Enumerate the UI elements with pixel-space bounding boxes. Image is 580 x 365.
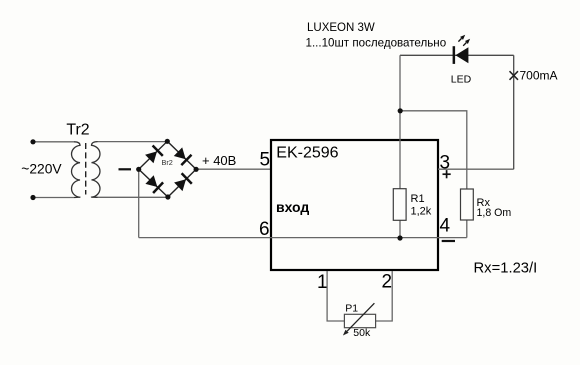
svg-text:4: 4 — [440, 216, 451, 237]
transformer secondary winding — [92, 142, 100, 198]
svg-text:Tr2: Tr2 — [66, 122, 89, 139]
transformer Tr2 primary winding — [72, 142, 80, 198]
wire LED return vertical — [513, 55, 515, 169]
svg-text:1,2k: 1,2k — [411, 206, 432, 218]
wire secondary top to bridge — [98, 141, 168, 143]
bridge rectifier Br2 outline — [139, 141, 196, 197]
svg-text:2: 2 — [382, 271, 393, 292]
diode D2 (top-right edge) — [174, 147, 186, 159]
minus sign at bridge left node — [119, 168, 132, 170]
svg-text:3: 3 — [440, 152, 451, 173]
wire bridge plus to pin5 — [196, 168, 271, 170]
wire pin3 to LED return — [438, 168, 514, 170]
node bridge top — [165, 139, 170, 144]
diode D3 (left-bottom edge) — [145, 175, 157, 187]
wire pin2 to pot — [376, 271, 393, 321]
svg-text:Br2: Br2 — [162, 158, 173, 167]
node bridge left — [136, 167, 141, 172]
junction LED anode / Rx branch — [398, 108, 403, 113]
svg-text:Rx=1.23/I: Rx=1.23/I — [474, 261, 538, 277]
svg-text:~220V: ~220V — [21, 162, 62, 177]
module EK-2596 box — [271, 140, 438, 270]
LED symbol — [453, 35, 471, 64]
current cross marker — [510, 71, 519, 80]
svg-text:5: 5 — [260, 150, 271, 171]
svg-text:P1: P1 — [345, 303, 358, 315]
wire ground rail pin6 to pin4 to Rx — [139, 237, 467, 239]
plus sign at pin3 — [443, 173, 451, 175]
wire R1 bottom lead — [399, 220, 401, 237]
potentiometer P1 body — [344, 314, 375, 327]
svg-text:вход: вход — [276, 199, 309, 215]
minus sign at pin4 — [442, 240, 455, 242]
wire primary bottom — [33, 197, 74, 199]
diode D1 (left-top edge) — [145, 151, 157, 163]
svg-text:1: 1 — [317, 272, 328, 293]
resistor Rx body — [461, 189, 474, 220]
potentiometer P1 arrow — [347, 303, 374, 331]
terminal dot primary bottom — [30, 195, 35, 200]
svg-text:6: 6 — [259, 219, 270, 240]
diode D4 (bottom-right edge) — [174, 179, 186, 191]
wire primary top — [33, 141, 74, 143]
wire secondary bottom to bridge — [98, 196, 168, 198]
wire Rx bottom lead — [466, 220, 468, 238]
svg-text:1,8 Om: 1,8 Om — [477, 207, 512, 219]
wire bridge minus down — [138, 169, 140, 237]
svg-text:+ 40В: + 40В — [202, 153, 236, 168]
wire LED top horizontal — [400, 54, 514, 56]
wire R1 top lead to LED anode — [399, 55, 401, 188]
terminal dot primary top — [30, 139, 35, 144]
junction R1 / ground rail — [397, 235, 402, 240]
svg-text:EK-2596: EK-2596 — [276, 145, 338, 162]
svg-text:1...10шт последовательно: 1...10шт последовательно — [306, 37, 447, 50]
node bridge bottom — [165, 194, 170, 199]
svg-text:700mA: 700mA — [520, 68, 558, 82]
node bridge right — [194, 167, 199, 172]
resistor R1 body — [393, 189, 406, 221]
transformer core — [85, 143, 87, 195]
svg-text:LED: LED — [451, 74, 472, 86]
svg-text:LUXEON 3W: LUXEON 3W — [307, 22, 375, 34]
wire pin1 to pot — [327, 271, 344, 321]
wire branch to Rx top — [400, 111, 467, 189]
svg-text:50k: 50k — [353, 327, 371, 339]
svg-text:R1: R1 — [411, 193, 425, 205]
